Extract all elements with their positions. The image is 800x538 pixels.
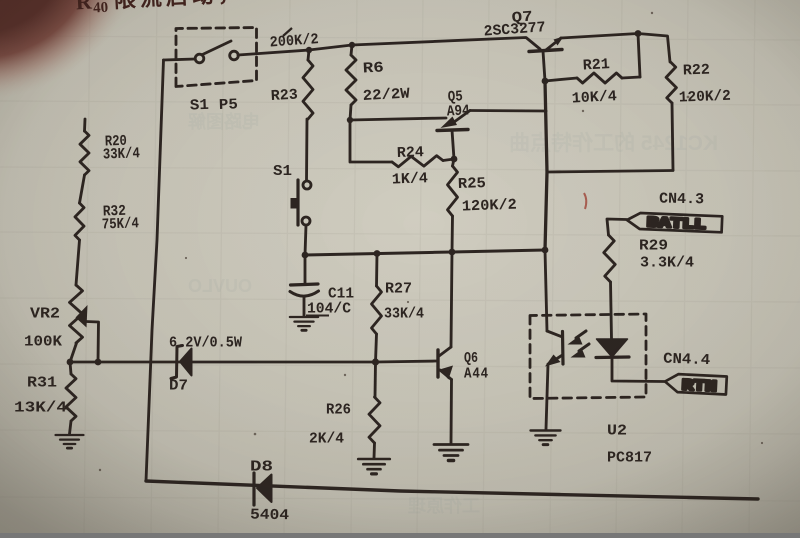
left chain: resistor R20 (33K/4)	[80, 131, 89, 175]
wire : Q5 emitter to right vertical	[470, 109, 546, 112]
transistor Q6 (A44, PNP)	[438, 347, 453, 380]
transistor Q7 (2SC3277, NPN)	[529, 37, 564, 82]
wire : R27 bottom lead	[376, 334, 377, 362]
node : junction R23 top	[306, 47, 312, 53]
wire : Q6 collector up to mid bus	[451, 252, 452, 347]
node : R27 top junction	[374, 250, 381, 257]
node : R27/R26/zener-bus junction	[372, 358, 379, 365]
LED of U2	[596, 282, 664, 382]
wire : L-drop to R24	[350, 120, 392, 162]
node : wiper junction	[95, 359, 102, 366]
node : R25/Q6 junction	[449, 249, 456, 256]
light arrows inside U2	[568, 331, 590, 358]
wire : R22 bottom lead down	[672, 103, 673, 170]
wire : Q6 emitter to ground	[450, 380, 453, 444]
ground : C11	[290, 317, 318, 330]
wire : long bottom bus	[146, 481, 758, 499]
potentiometer VR2 (100K)	[70, 285, 83, 343]
node : R24/R25/Q5 junction	[451, 156, 458, 163]
wire : photo-transistor collector from mid bus	[545, 250, 547, 331]
wire : zener bus (VR2 node through D7 to Q6 base)	[70, 361, 437, 362]
ground : U2 photo transistor	[531, 431, 561, 445]
ground : R31	[56, 435, 84, 448]
node : junction R6 top	[349, 42, 355, 48]
resistor R22 (120K/2)	[666, 62, 676, 103]
wire : R31 to ground	[70, 421, 72, 434]
resistor R6 (22/2W)	[346, 55, 356, 105]
node : Q7 collector junction	[542, 78, 549, 85]
diode D7 (zener 6.2V/0.5W)	[171, 346, 192, 379]
connector CN4.4 RTN tag	[664, 374, 726, 397]
wire : rail corner to switch contact	[164, 59, 196, 60]
wire : left rail from switch box down to bottom-left corner	[146, 60, 164, 481]
VR2 wiper arrow	[76, 305, 99, 362]
wire : Q7 emitter to top-right node	[561, 34, 638, 39]
wire : right vertical from Q7 collector node to mid bus	[545, 81, 547, 250]
wire : S1 to mid bus	[305, 225, 306, 255]
ground : R26	[358, 459, 390, 474]
wire : R23 to S1	[305, 119, 308, 181]
capacitor C11 (104/C)	[290, 255, 319, 316]
wire : R21 right lead	[622, 77, 640, 78]
wire : R22 return to right vertical	[548, 171, 673, 173]
wire : node down to R21 right	[638, 34, 640, 78]
resistor R29 (3.3K/4)	[604, 235, 615, 282]
ground : Q6	[434, 445, 468, 461]
wire : R6 bottom lead	[350, 105, 351, 120]
wire : top bus from switch to Q7 base	[238, 38, 540, 56]
connector CN4.3 BATL tag	[627, 213, 723, 235]
wire : middle bus	[305, 250, 545, 255]
wire : R31 top lead	[70, 362, 71, 374]
wire : R26 bottom lead	[373, 443, 376, 458]
wire : R25 top lead	[453, 159, 455, 166]
diode D8 (5404) on bottom bus	[254, 473, 272, 505]
resistor R26 (2K/4)	[369, 397, 380, 443]
resistor R21 (10K/4) horizontal	[577, 73, 622, 83]
resistor R31 (13K/4)	[66, 374, 76, 421]
optocoupler U2 PC817 : dashed box	[530, 314, 646, 399]
wire : R21 left lead to Q7 collector node	[545, 78, 577, 81]
wire : R27 top lead	[375, 254, 378, 287]
stray mark above value	[283, 28, 292, 36]
wire : R32-VR2 link	[76, 240, 80, 285]
transistor Q5 (A94, PNP)	[437, 111, 470, 160]
switch P5 contact circle left	[195, 54, 204, 63]
wire : R6 top lead	[351, 45, 352, 55]
pushbutton S1 top contact	[303, 181, 311, 189]
node : S1/C11 junction	[302, 252, 309, 259]
node : VR2/R31 junction	[67, 359, 74, 366]
wire : R20-R32 link	[80, 175, 85, 203]
resistor R27 (33K/4)	[372, 286, 382, 334]
photo transistor of U2 (mirrored)	[545, 331, 563, 367]
resistor R25 (120K/2)	[448, 166, 458, 216]
wire : R23 top lead	[308, 50, 309, 60]
wire : photo emitter to ground	[546, 364, 548, 429]
wire : BATL tag to R29	[607, 219, 627, 235]
wire : R24 right lead	[443, 159, 454, 161]
switch P5 lever	[203, 41, 232, 55]
wire : node to R22 top	[638, 34, 670, 63]
resistor R23 (200K/2)	[303, 60, 313, 119]
wire : R6 node to Q5 base	[350, 118, 446, 120]
wire : R25 bottom lead to mid bus	[451, 216, 454, 252]
wire : VR2 bottom to node	[70, 343, 77, 362]
switch P5 contact circle right	[230, 51, 239, 60]
pushbutton S1 bottom contact	[302, 217, 310, 225]
resistor R24 (1K/4) horizontal	[392, 156, 443, 167]
resistor R32 (75K/4)	[75, 203, 84, 240]
wire : R26 top lead	[374, 362, 377, 397]
dashed enclosure box of switch S1/P5	[176, 28, 257, 87]
pushbutton S1 plunger	[296, 180, 299, 225]
node : right vertical junction	[542, 247, 549, 254]
wire : R20 top stub	[83, 119, 86, 131]
node : junction R6 bottom / Q5 base / R24	[347, 117, 353, 123]
node : top-right junction	[635, 30, 642, 37]
